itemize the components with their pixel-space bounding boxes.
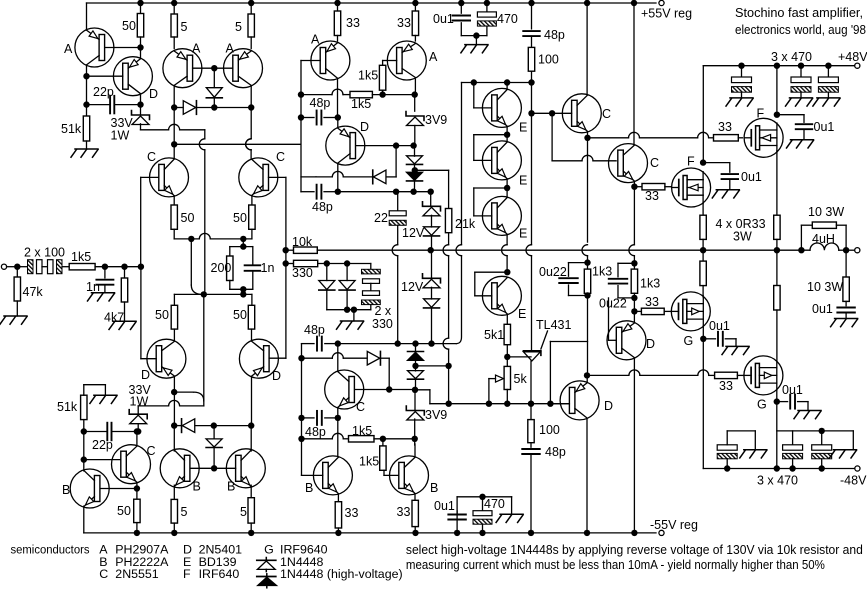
wire CUR base to x285 — [269, 176, 286, 178]
node x301 row438 — [298, 436, 304, 442]
ground 51k lower (bracket) — [83, 385, 85, 396]
resistor 50 (LTP lower left) — [171, 305, 177, 329]
resistor 200 (tail) — [229, 247, 231, 256]
resistor 50 (top left) — [137, 0, 143, 6]
transistor E2 BD139 — [482, 141, 521, 180]
svg-text:1k3: 1k3 — [592, 265, 612, 279]
wire 1k5v to B5 base — [383, 470, 385, 475]
svg-text:1k5: 1k5 — [351, 97, 371, 111]
node E2-E3 — [504, 185, 510, 191]
svg-text:Stochino fast amplifier,: Stochino fast amplifier, — [735, 5, 863, 20]
wire diode row low — [174, 425, 182, 427]
wire B3 emitter to R5 — [250, 485, 252, 498]
wire B-pair bases — [190, 467, 235, 469]
wire DLL emitter from R50 — [173, 294, 175, 305]
svg-text:48p: 48p — [312, 200, 333, 214]
resistor 100 (bottom) — [528, 420, 534, 443]
wire G1 gate resistor — [634, 310, 641, 312]
svg-text:measuring current which must b: measuring current which must be less tha… — [406, 557, 825, 572]
resistor 10k (feedback) — [286, 249, 294, 251]
node DLR collector diode row — [248, 422, 254, 428]
transistor C-upper-right 2N5551 — [239, 158, 278, 197]
node B1 base / R50 — [134, 485, 140, 491]
svg-text:E: E — [518, 307, 526, 321]
diode mid column (down) — [213, 68, 215, 87]
svg-text:48p: 48p — [304, 323, 325, 337]
capacitor 48p (top) — [528, 0, 534, 6]
wire B1 emitter to bottom rail — [83, 506, 85, 533]
svg-text:C: C — [650, 156, 659, 170]
wire x84 down to C-ll base row — [83, 432, 85, 471]
wire D1 base — [87, 75, 123, 77]
svg-text:12V: 12V — [401, 280, 424, 294]
wire C5 collector to rail — [631, 0, 637, 6]
wire row403 left hook — [429, 390, 431, 404]
svg-text:A: A — [226, 42, 235, 56]
wire C4-emitter bias: hop rail — [582, 245, 588, 256]
wire B2 collector — [173, 426, 175, 451]
svg-text:+48V: +48V — [838, 50, 867, 64]
svg-text:50: 50 — [117, 504, 131, 518]
svg-text:E: E — [519, 227, 527, 241]
wire x301 lower column — [301, 344, 303, 476]
transistor C-upper-left 2N5551 — [150, 158, 189, 197]
ground 0u1 F1 — [803, 129, 805, 140]
capacitor 22p (top) — [87, 104, 110, 106]
capacitor 0u1 (top) — [458, 0, 464, 6]
resistor 1k5 (input) — [69, 264, 95, 270]
resistor 0R33 #4 — [776, 250, 778, 285]
svg-text:10k: 10k — [292, 235, 313, 249]
wire +48 corner down — [702, 66, 704, 163]
node G1 drain 0u1 — [700, 336, 706, 342]
svg-text:33: 33 — [397, 505, 411, 519]
svg-text:12V: 12V — [402, 226, 425, 240]
svg-text:3V9: 3V9 — [425, 113, 447, 127]
wire C5 emitter — [633, 182, 635, 187]
resistor 50 (LTP upper left) — [171, 205, 177, 229]
ground 470#4 — [744, 449, 767, 451]
zener 12V pair upper — [423, 202, 441, 211]
svg-text:470: 470 — [497, 12, 518, 26]
node A5 collector — [412, 91, 418, 97]
node C5 emitter — [631, 184, 637, 190]
wire C4 collector to rail — [584, 0, 590, 6]
wire E4 emitter to 5k1 — [506, 314, 508, 324]
svg-text:2 x 100: 2 x 100 — [24, 246, 65, 260]
svg-text:0u22: 0u22 — [599, 297, 627, 311]
wire E1 base hook — [473, 83, 475, 108]
wire TL431 tap — [507, 356, 531, 358]
svg-text:100: 100 — [538, 53, 559, 67]
capacitor 48p (#3) — [302, 343, 315, 345]
node A1 coll / D1 base — [83, 73, 89, 79]
node D3 emitter / gate row — [584, 372, 590, 378]
svg-text:0u1: 0u1 — [434, 499, 455, 513]
capacitor 2x330 electrolytic stack — [370, 264, 372, 270]
TL431 pointer — [541, 331, 548, 349]
wire D3 collector to rail — [586, 419, 588, 533]
svg-text:+55V reg: +55V reg — [641, 7, 692, 21]
node 48p3 right — [335, 340, 341, 346]
ground 1n input — [104, 285, 106, 293]
wire row403 — [430, 403, 449, 405]
svg-text:4uH: 4uH — [812, 232, 835, 246]
wire 33V to x205 elbow — [140, 124, 142, 130]
wire C-ll emitter to node — [136, 483, 138, 489]
zener 33V 1W (lower) — [137, 406, 139, 414]
transistor C-lower-left 2N5551 (left bottom) — [112, 445, 151, 484]
svg-text:electronics world, aug '98: electronics world, aug '98 — [735, 22, 866, 37]
svg-text:33: 33 — [345, 506, 359, 520]
node row191 corner 12V — [428, 189, 434, 195]
node rail D3 — [584, 530, 590, 536]
transistor C4 2N5551 (driver upper) — [562, 94, 601, 133]
resistor 5 (right) — [248, 0, 254, 6]
wire chain tap to 21k — [415, 169, 449, 171]
wire B2 emitter to R5 — [173, 485, 175, 499]
resistor 33 (G1 gate) — [641, 308, 664, 314]
wire E1 collector — [506, 83, 508, 90]
node 1k5/1k5 — [379, 91, 385, 97]
diode chain open lower (down) — [415, 366, 417, 371]
diode chain open (down) — [414, 146, 416, 157]
wire A1 collector — [86, 65, 88, 105]
wire 5k bottom — [506, 390, 508, 404]
node 48p2 left-mid — [335, 189, 341, 195]
svg-text:F: F — [687, 155, 695, 169]
resistor 1k5 (horizontal lower) — [349, 436, 375, 442]
svg-text:48p: 48p — [305, 425, 326, 439]
mosfet F2 IRF640 (mid) — [672, 168, 711, 207]
wire A1 emitter drop — [86, 3, 88, 30]
svg-text:1k5: 1k5 — [71, 250, 91, 264]
transistor B3 PH2222A (pair right) — [226, 449, 265, 488]
diode (right-point) row358 — [302, 357, 333, 359]
svg-text:22p: 22p — [93, 85, 114, 99]
svg-text:D: D — [272, 369, 281, 383]
svg-text:D: D — [149, 87, 158, 101]
node x301 row358 — [298, 355, 304, 361]
zener 33V 1W (upper) — [140, 105, 142, 115]
wire +55V top rail — [87, 2, 657, 4]
node emitter row / tail — [188, 236, 194, 242]
svg-text:3 x 470: 3 x 470 — [757, 474, 798, 488]
transistor E3 BD139 — [482, 196, 521, 235]
svg-text:33: 33 — [718, 120, 732, 134]
resistor 50 (LTP upper right) — [249, 205, 255, 229]
wire C6 base row — [355, 389, 414, 391]
svg-text:IRF640: IRF640 — [199, 567, 240, 581]
svg-text:0u1: 0u1 — [812, 302, 833, 316]
svg-text:F: F — [757, 107, 765, 121]
node C-ll base — [81, 456, 87, 462]
resistor 47k — [16, 267, 18, 277]
capacitor 470 #4 (-48) — [724, 465, 730, 471]
wire input bus down — [140, 267, 142, 359]
transistor D-lower-left 2N5401 — [147, 339, 186, 378]
svg-text:5: 5 — [235, 20, 242, 34]
svg-text:A: A — [64, 42, 73, 56]
wire -55V bottom rail — [84, 532, 656, 534]
node 5k1/5k — [504, 354, 510, 360]
capacitor 0u22 #2 — [618, 262, 634, 264]
svg-text:D: D — [141, 368, 150, 382]
svg-text:2 x: 2 x — [375, 304, 392, 318]
wire A-pair base join — [193, 67, 233, 69]
node E3-E4 — [504, 269, 510, 275]
wire B1 collector — [83, 469, 85, 472]
svg-text:TL431: TL431 — [536, 318, 571, 332]
svg-text:5k1: 5k1 — [484, 328, 504, 342]
legend diode 1N4448 symbol — [265, 558, 267, 561]
wire A1 base to node — [105, 47, 141, 49]
node rail 12V upper — [428, 247, 434, 253]
ground right caps — [852, 431, 854, 450]
resistor 4k7 — [124, 267, 126, 278]
svg-text:C: C — [147, 444, 156, 458]
capacitor 48p (bottom) — [530, 404, 532, 420]
ground bottom 0u1/470 — [511, 497, 513, 515]
wire E3-E4 across rail — [506, 235, 508, 245]
wire row177 left end — [301, 176, 316, 178]
wire C6 collector — [337, 344, 339, 372]
transistor A3 PH2907A (pair right) — [224, 49, 263, 88]
capacitor 48p (#1) — [301, 117, 314, 119]
capacitor 470 #1 (+48) — [738, 62, 744, 68]
wire D2 collector — [337, 164, 339, 192]
node 48p D-upper emitter — [335, 114, 341, 120]
transistor E1 BD139 — [482, 88, 521, 127]
wire 2x330 bottom row — [327, 309, 371, 311]
wire row 392 — [174, 391, 193, 393]
svg-text:A: A — [192, 42, 201, 56]
resistor 5 (left) — [171, 0, 177, 6]
svg-text:C: C — [602, 107, 611, 121]
wire E4 base hook — [475, 271, 508, 273]
wire DLR emitter from R50 — [251, 294, 253, 305]
resistor 0R33 #2 — [774, 215, 780, 239]
node diode row left — [171, 104, 177, 110]
wire F2 source down to 0R33 — [702, 203, 704, 216]
ground 4k7 — [124, 302, 126, 321]
pot wiper arrow — [496, 375, 504, 382]
node rail R50bl — [134, 530, 140, 536]
svg-text:330: 330 — [292, 266, 313, 280]
svg-text:2N5551: 2N5551 — [115, 567, 159, 581]
svg-text:E: E — [519, 121, 527, 135]
capacitor 470 #5 (-48) — [789, 465, 795, 471]
node A-pair bases — [211, 65, 217, 71]
node row438 1k5v — [380, 436, 386, 442]
capacitor 0u1 (F2) — [703, 162, 730, 164]
node rail B3 — [248, 530, 254, 536]
svg-text:D: D — [604, 399, 613, 413]
node row438 z-chain — [412, 436, 418, 442]
svg-text:1k5: 1k5 — [358, 69, 378, 83]
zener 3V9 (lower) — [414, 390, 416, 410]
TL431 symbol — [523, 351, 541, 356]
transistor C6 2N5551 (VAS lower) — [325, 370, 364, 409]
bracket 200/1n top — [230, 246, 253, 248]
resistor 1k3 #2 — [633, 263, 635, 269]
svg-text:5: 5 — [240, 505, 247, 519]
transistor D-lower-right 2N5401 — [239, 339, 278, 378]
resistor 33 (B6) — [412, 500, 418, 526]
node x301 row417 — [298, 415, 304, 421]
node row191 x396 — [393, 189, 399, 195]
wire E2 base hook — [474, 134, 507, 136]
node chain mid lower — [412, 363, 418, 369]
svg-text:0u1: 0u1 — [741, 170, 762, 184]
transistor B5 PH2222A (mid2) — [313, 456, 352, 495]
wire D1 emitter from node — [140, 48, 142, 58]
legend filled diode symbol — [0, 0, 1, 1]
node x301 row95 — [298, 91, 304, 97]
wire DLL collector down — [173, 377, 175, 425]
wire D4 collector down — [633, 359, 635, 533]
svg-text:1n: 1n — [261, 261, 275, 275]
wire 1k5 row — [301, 94, 332, 96]
wire 12V col upper — [430, 192, 432, 206]
capacitor 2x100 electrolytic pair (input) — [17, 266, 27, 268]
capacitor 0u1 (G1) — [703, 338, 715, 340]
wire DLR base to x286 — [269, 357, 286, 359]
node 1k3#1 bottom — [584, 292, 590, 298]
wire 330 row — [318, 263, 371, 265]
wire G2 drain down — [776, 390, 778, 469]
ground 470#3 — [827, 92, 829, 98]
svg-text:1k3: 1k3 — [640, 277, 660, 291]
svg-text:B: B — [305, 481, 313, 495]
wire 33V lower elbow — [138, 405, 168, 407]
wire C-upper-left base to input bus — [140, 177, 142, 266]
wire x205 to 33V lower elbow — [203, 294, 205, 400]
transistor B1 PH2222A — [70, 469, 109, 508]
capacitor 0u1 (F1 gate-drain) — [777, 114, 804, 116]
transistor A2 PH2907A (pair left) — [163, 49, 202, 88]
svg-text:1N4448 (high-voltage): 1N4448 (high-voltage) — [280, 567, 403, 581]
capacitor 470 (bottom) — [482, 497, 484, 511]
svg-text:C: C — [99, 567, 108, 581]
wire E2-E3 — [506, 179, 508, 197]
resistor 330 (feedback) — [286, 263, 294, 265]
wire B1 base — [100, 488, 137, 490]
svg-text:200: 200 — [211, 261, 232, 275]
svg-text:22: 22 — [374, 211, 388, 225]
resistor 0R33 #1 — [700, 215, 706, 239]
ground under 51k — [86, 141, 88, 149]
node rail 0R33#1 — [700, 247, 706, 253]
ground zobel — [845, 313, 847, 319]
wire C4 emitter down (bias bus) — [587, 132, 589, 242]
svg-text:50: 50 — [122, 19, 136, 33]
svg-text:C: C — [276, 150, 285, 164]
transistor B6 PH2222A (mid3) — [390, 456, 429, 495]
node TL431 row — [528, 401, 534, 407]
svg-text:-48V: -48V — [840, 474, 867, 488]
svg-text:470: 470 — [484, 497, 505, 511]
node diode row right — [248, 104, 254, 110]
svg-text:51k: 51k — [57, 400, 78, 414]
node row82 E1 hook — [471, 79, 477, 85]
capacitor 1n (tail) — [252, 247, 254, 266]
svg-text:G: G — [757, 398, 767, 412]
ground 470#2 — [800, 92, 802, 98]
svg-text:51k: 51k — [61, 122, 82, 136]
resistor 33 (F2 gate) — [634, 186, 642, 188]
diode chain filled 1N4448HV lower (up) — [415, 344, 417, 352]
node 1k3#1 top — [584, 259, 590, 265]
node row82 x531 — [528, 79, 534, 85]
svg-text:-55V reg: -55V reg — [650, 518, 698, 532]
svg-text:A: A — [311, 33, 320, 47]
diode (left-point) row177 — [386, 176, 396, 178]
node 22p-low right — [135, 428, 141, 434]
transistor D2 2N5401 (upper follower) — [326, 126, 365, 165]
terminal input — [1, 264, 6, 269]
wire x550 up — [549, 342, 551, 404]
svg-text:330: 330 — [372, 317, 393, 331]
wire x396 to diode — [395, 146, 397, 177]
wire CUR emitter to R50 — [251, 196, 253, 205]
svg-text:3W: 3W — [733, 230, 752, 244]
resistor 5k1 — [504, 324, 510, 344]
mosfet F1 IRF640 (top) — [744, 118, 783, 157]
transistor E4 BD139 — [482, 276, 521, 315]
wire emitter row lower — [174, 293, 252, 295]
node lower emitter row joint — [201, 291, 207, 297]
wire 33V lower to 22p row — [137, 424, 139, 432]
resistor 1k5 (horizontal upper) — [350, 91, 372, 97]
bracket right caps — [777, 430, 854, 432]
node rail B2 — [171, 530, 177, 536]
diode chain filled 1N4448HV (down) — [414, 170, 416, 172]
wire C-ll collector to 22p row — [136, 432, 138, 446]
terminal +48V — [855, 63, 860, 68]
wire chain tap lower to 21k — [416, 365, 449, 367]
wire CUL emitter to R50 — [173, 196, 175, 205]
capacitor 470 #2 (+48) — [798, 62, 804, 68]
wire E1-E2 — [506, 127, 508, 142]
terminal -55V reg — [659, 530, 664, 535]
wire CUR collector from diode row — [250, 108, 252, 139]
svg-text:50: 50 — [233, 308, 247, 322]
hop x251 over y144 — [246, 139, 251, 150]
svg-text:B: B — [227, 480, 235, 494]
wire E3 base hook — [474, 187, 507, 189]
node row343 z-chain — [412, 340, 418, 346]
resistor 1k3 #1 — [587, 263, 589, 270]
bracket 200/1n bottom — [230, 288, 253, 290]
svg-text:B: B — [62, 483, 70, 497]
wire D3 base — [550, 403, 569, 405]
wire B3 collector — [250, 426, 252, 451]
node A1-base/R50 — [137, 44, 143, 50]
svg-text:B: B — [430, 481, 438, 495]
resistor 50 (bottom left) — [136, 489, 138, 500]
svg-text:5: 5 — [181, 505, 188, 519]
resistor 100 (top) — [531, 36, 533, 47]
wire main rail (output/feedback) — [317, 249, 810, 251]
terminal output — [846, 249, 855, 251]
capacitor 470 #6 (-48) — [819, 465, 825, 471]
capacitor 1n (input) — [104, 267, 106, 278]
capacitor 48p (#4) — [302, 417, 315, 419]
wire B6 collector to row438 — [414, 439, 416, 445]
wire D4 emitter from gate node — [633, 311, 635, 321]
node G1 gate — [631, 308, 637, 314]
